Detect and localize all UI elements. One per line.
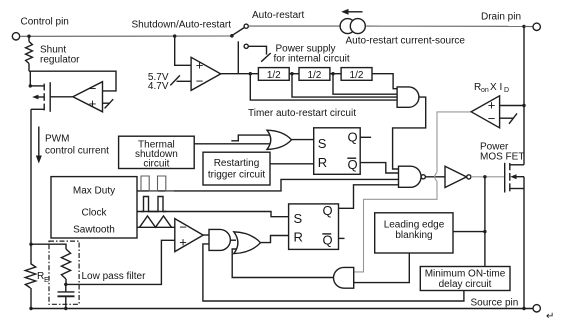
arrow PWM control current [38,127,40,158]
inverter U11 [445,166,467,187]
svg-text:Timer auto-restart circuit: Timer auto-restart circuit [248,108,356,119]
svg-text:Source pin: Source pin [471,298,519,309]
wire shunt block top feedback [29,71,116,91]
wire PWM control current vertical [30,109,32,244]
node timer input junction [249,72,252,75]
wire PWM AND to OR [230,239,236,241]
wire PWM comparator output [203,234,209,236]
svg-text:−: − [196,74,204,89]
wire current-limit AND to OR lower input [232,249,333,278]
svg-text:E: E [44,275,49,284]
svg-text:Low pass filter: Low pass filter [82,271,147,282]
svg-text:R: R [294,230,303,245]
svg-text:MOS FET: MOS FET [480,152,524,163]
wire to drain pin [524,25,533,27]
OR gate U8 PWM [234,232,261,254]
AND gate U13 current limit (left pointing) [334,267,354,288]
svg-text:−: − [488,111,496,126]
waveform glyph max duty pulses [141,176,174,191]
low pass filter dashed box [49,241,79,304]
svg-text:Control pin: Control pin [21,17,69,28]
current source I1 auto-restart (two circles) [340,19,355,34]
wire MOSFET source down [523,189,525,309]
svg-text:delay circuit: delay circuit [439,279,492,290]
svg-text:Auto-restart current-source: Auto-restart current-source [346,36,466,47]
wire comparator output to timer [221,73,259,75]
AND gate U3 timer [397,87,419,107]
svg-text:Leading edge: Leading edge [384,220,445,231]
wire lower latch Qbar stub [339,237,345,239]
svg-text:+: + [179,235,187,250]
node tap after box2 [331,72,334,75]
latch U5 S-R upper [314,128,361,175]
wire inverter output to gate [471,176,505,178]
wire switch to current source [248,25,340,27]
wire tap box2 to AND [333,74,397,95]
svg-text:R: R [318,155,327,170]
node source pin junction [522,307,525,310]
wire tap box1 to AND [292,74,397,97]
svg-text:4.7V: 4.7V [148,81,169,92]
svg-text:circuit: circuit [143,159,169,170]
svg-text:Q: Q [348,157,358,172]
wire box3 output to AND [372,74,397,89]
restarting trigger circuit box [203,152,270,185]
switch throw contact circle [244,24,248,28]
svg-text:PWM: PWM [45,134,69,145]
wire op-amp output to gate [50,96,73,98]
wire NAND to inverter [425,176,445,178]
wire current source to drain node [366,25,524,27]
op-amp U12 current limit comparator [471,96,499,128]
transistor Q2 power MOSFET [504,163,506,193]
wire switch branch down to timer line [237,41,239,73]
wire max duty to NAND [137,179,399,191]
waveform glyph clock pulses [141,197,167,212]
power supply tap circle [244,44,248,48]
edge trigger glyph [231,135,272,141]
arrow current direction (left) [347,11,363,13]
svg-text:Minimum ON-time: Minimum ON-time [425,269,506,280]
wire power supply tap [248,46,266,54]
svg-text:blanking: blanking [395,230,432,241]
wire OR to S input [292,139,314,141]
node bottom-left rail [29,307,32,310]
svg-text:−: − [89,81,97,96]
svg-text:for internal circuit: for internal circuit [274,54,350,65]
waveform glyph sawtooth [140,216,172,227]
resistor shunt regulator [28,36,30,41]
wire branch into low pass filter [31,244,66,249]
wire comparator - stub with slash [500,117,514,119]
svg-text:Q: Q [323,203,333,218]
wire box1 to box2 [289,73,299,75]
svg-text:D: D [504,87,509,94]
wire comparator + to drain rail [500,105,524,107]
node R-C junction [64,283,67,286]
node capacitor to rail [64,307,67,310]
svg-text:trigger circuit: trigger circuit [208,170,265,181]
wire down to RE [30,244,32,263]
capacitor C1 low pass filter [65,284,67,292]
wire upper latch Qbar to NAND [360,163,398,173]
switch blade [232,28,244,36]
wire control pin to shutdown switch [20,35,232,37]
Source pin terminal [533,305,540,312]
wire to 5.7V comparator + input [175,36,191,65]
divider box 1/2 second [299,68,330,81]
svg-text:regulator: regulator [40,55,80,66]
wire gate to leading edge blanking and min delay [484,177,486,267]
wire box2 to box3 [330,73,341,75]
wire LEB output to current limit AND [354,253,410,283]
wire upper latch Q stub [360,136,371,138]
thermal shutdown circuit box [119,136,195,168]
wire op-amp + stub with slash [103,102,111,104]
transistor Q1 shunt p-MOSFET [49,82,51,112]
svg-text:S: S [294,211,303,226]
wire bottom source rail [31,308,533,310]
op-amp U1 shunt error amp [73,82,103,112]
svg-text:1/2: 1/2 [307,70,321,81]
wire timer input to AND [250,74,397,100]
svg-text:on: on [481,87,489,94]
node low pass filter branch [29,243,32,246]
leading edge blanking box [375,213,453,253]
AND gate U7 PWM [209,229,230,250]
divider box 1/2 first [258,68,289,81]
svg-text:Restarting: Restarting [214,158,260,169]
node control/shunt junction [27,35,30,38]
wire timer AND output to NAND [393,97,426,169]
max duty clock sawtooth box [51,177,137,238]
latch U9 S-R lower [289,204,339,250]
svg-text:Drain pin: Drain pin [481,12,521,23]
svg-text:−: − [179,220,187,235]
wire clock to lower latch S [137,212,289,217]
svg-text:Max Duty: Max Duty [73,186,115,197]
svg-text:+: + [89,96,97,111]
svg-text:Q: Q [323,233,333,248]
wire restarting trigger to R input [270,163,314,165]
node drain sense [522,104,525,107]
wire min-on-time to PWM AND input [203,244,464,301]
wire LEB to gate net [453,231,485,233]
node drain top junction [522,25,525,28]
node LEB junction [483,230,486,233]
node shunt mosfet drain stub [29,84,32,87]
OR gate U4 shutdown [267,130,292,149]
wire RE to bottom rail [30,288,32,309]
svg-text:1/2: 1/2 [350,70,364,81]
svg-text:Auto-restart: Auto-restart [252,10,304,21]
switch shutdown/auto-restart contact dot [230,34,234,38]
wire LPF output to PWM comparator [66,240,175,284]
Drain pin terminal [533,23,540,30]
divider box 1/2 third [341,68,372,81]
node comparator tap on control line [173,34,176,37]
node gate junction [483,175,486,178]
svg-text:S: S [318,136,327,151]
wire left rail to mosfet drain stub [29,71,31,86]
resistor low pass filter [61,249,70,279]
wire PWM OR output to lower latch R [261,236,289,243]
node tap after box1 [290,72,293,75]
wire sawtooth to PWM comparator [137,226,175,228]
svg-text:control current: control current [45,146,109,157]
svg-text:Sawtooth: Sawtooth [73,225,115,236]
Control pin terminal [12,33,19,40]
svg-text:↵: ↵ [546,311,554,322]
svg-text:Clock: Clock [81,208,107,219]
wire comparator - input with slash [177,80,192,82]
op-amp U6 PWM comparator [175,219,203,252]
wire current limit comparator net (gray) [437,112,471,172]
wire drain vertical rail [523,26,525,164]
op-amp U2 5.7V/4.7V comparator [191,57,221,90]
svg-text:X I: X I [490,82,502,93]
wire lower latch Q to NAND [339,185,399,209]
svg-text:1/2: 1/2 [267,70,281,81]
resistor RE [25,264,35,289]
svg-text:Q: Q [348,129,358,144]
minimum ON-time delay circuit box [420,267,510,291]
svg-text:Shutdown/Auto-restart: Shutdown/Auto-restart [132,20,232,31]
svg-text:+: + [196,58,204,73]
wire thermal to OR gate [194,143,271,145]
NAND gate U10 [399,166,422,187]
switch blade power supply [261,53,271,62]
